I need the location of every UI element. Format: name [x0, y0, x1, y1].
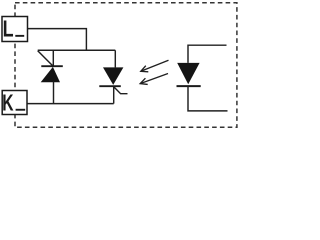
SCR Q2 (right photo-thyristor, pointing down) anode lead [114, 50, 116, 67]
SCR Q2 cathode lead [113, 86, 115, 103]
LED D1 anode wire [188, 45, 227, 63]
SCR Q1 cathode bar [41, 65, 63, 67]
SCR Q2 triangle [103, 67, 123, 85]
package outline (dashed) [15, 3, 237, 128]
SCR Q1 triangle [41, 67, 60, 82]
SCR Q1 (left photo-thyristor, pointing up) gate diagonal [38, 51, 53, 66]
wire L terminal to triac top rail [28, 29, 87, 51]
light arrow 2 (lower) [140, 74, 168, 85]
SCR Q2 cathode bar [99, 85, 121, 87]
SCR Q2 gate [113, 86, 127, 93]
svg-text:K: K [2, 91, 14, 117]
light arrow 1 (upper) [141, 60, 169, 72]
svg-text:L: L [3, 16, 14, 42]
terminal box K [2, 91, 27, 117]
terminal box L [2, 16, 28, 42]
LED D1 triangle [177, 63, 199, 84]
LED D1 cathode bar [177, 85, 201, 87]
wire: bottom rail (K to triac) [27, 103, 114, 105]
node: top rail [38, 49, 116, 51]
LED D1 cathode wire [188, 86, 228, 111]
SCR Q1 cathode lead [52, 50, 54, 66]
SCR Q1 anode lead [53, 82, 55, 104]
